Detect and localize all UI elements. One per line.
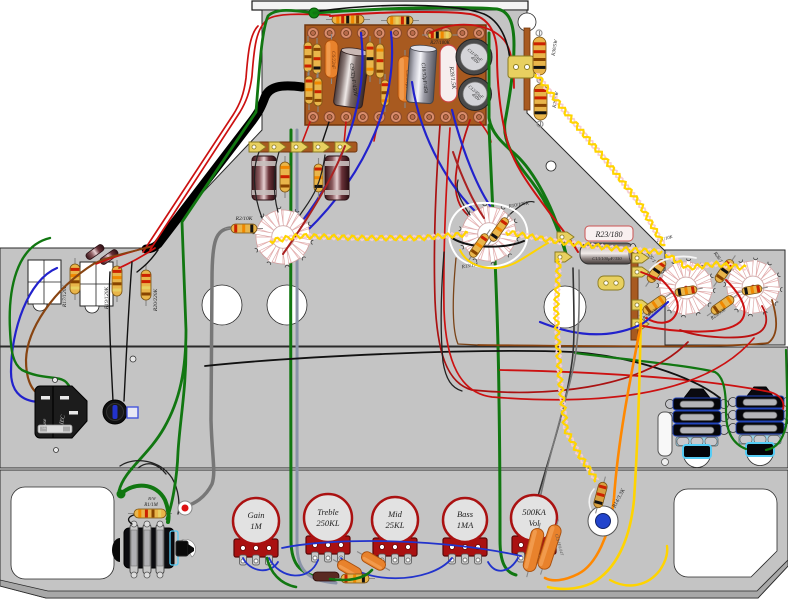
resistor R14/3.3K [591,475,610,514]
resistor R2/10K at V1 [225,224,263,233]
hole front-left [202,285,242,325]
resistor board 4 [314,72,322,112]
capacitor orange tone 2 [354,547,392,576]
wire black jack arc [120,461,179,514]
svg-text:R2/10K: R2/10K [235,216,253,222]
resistor R17/120K [70,258,80,300]
strip lug b [632,267,649,277]
capacitor C12 can [459,78,492,111]
diode maroon 2 [99,248,119,265]
wire fan black [137,250,158,272]
transformer T1 [684,441,711,468]
wire blue pot bus 4 [282,541,521,556]
twisted heater edge diagonal [536,74,664,247]
resistor R10/100K on V2 [485,211,514,248]
node green junction [309,8,319,18]
grid wire gray cable [186,228,230,506]
wire white V2 cloud [449,203,528,267]
wire red V4 right [680,306,766,337]
wire yellow bottom loop [610,546,667,585]
wire brown left loop [26,263,95,397]
svg-text:Treble: Treble [317,507,339,517]
screw hole [130,356,136,362]
wire blue board-V1 b [306,32,392,232]
wire black band B [205,351,720,398]
wire black over board [320,5,510,60]
resistor dark at pots [313,572,339,581]
hole front-right [544,286,586,328]
wire green mains along cable [119,10,314,491]
small board strip [250,142,357,152]
wire white power loop [650,257,696,271]
wire blue board-V1 a [300,33,362,224]
svg-text:Mid: Mid [387,509,402,519]
chassis bottom folded strip [0,560,788,598]
resistor R1/1M at jack [128,509,172,518]
wire brown fan [95,247,150,263]
resistor board 7 [381,74,389,112]
wire blue vol [488,558,518,571]
hole bottom-right cutout [674,489,777,577]
wire red mains 2 [143,26,258,252]
chassis top folded edge [252,1,528,10]
wire red V3 strip [641,272,660,280]
wire black C13 down [533,268,574,515]
wire brown V2 down [453,258,478,345]
resistor R29/5W [534,78,547,126]
capacitor C9/32uF/450V [333,46,370,108]
board turrets top row [308,28,319,39]
wire black switch 2 [124,262,132,401]
capacitor C2 maroon [325,156,349,200]
label R23/180 [585,226,633,241]
wire red board exit 4 [480,122,491,142]
wire black V2 down [441,252,462,391]
LED indicator [178,501,192,515]
wire red top run [330,12,578,252]
wire blue pot bus 1 [243,558,278,570]
resistor R13/1M on V2 [465,227,494,264]
twisted heater V2 to panel [506,230,662,254]
pilot light [588,506,618,536]
wire blue board-V2 a [412,82,478,214]
terminal strip right edge [524,28,530,110]
terminal strip right panel [631,252,638,340]
strip lug d [632,319,649,329]
fuse holder near T1 [658,412,672,456]
svg-text:C6/22nF: C6/22nF [330,51,335,70]
wire yellow V2 loop [460,240,554,268]
lug near C13 b [555,252,572,262]
wire yellow to pilot [602,505,603,520]
potentiometer Treble 250KL [306,536,350,554]
tube socket V2 [459,204,520,265]
wire red over transformers [500,370,783,409]
capacitor C6/22nF [325,34,338,84]
twisted heater down middle [554,259,599,480]
terminal strip TS1 [28,260,61,304]
wire red board exit 3 [374,122,378,141]
wire red arc over board [430,25,514,88]
wire fan red 1 [96,246,152,264]
resistor board 1 [304,36,312,78]
wire gray mid down [297,130,336,583]
diode maroon 1 [85,243,105,260]
resistor board 3 [305,70,313,110]
resistor R27/100K on board [422,31,458,39]
tube socket V4 [724,258,783,317]
wire red V3 loop [646,278,678,323]
resistor board 5 [366,36,374,82]
wire red mains 1 [150,14,330,250]
wire blue board-V2 b [452,110,493,210]
strip lug a [632,253,649,263]
hole front-left2 [267,285,307,325]
chassis top face and left band [0,10,666,346]
svg-text:25KL: 25KL [386,520,405,530]
resistor right of C2 [314,158,323,198]
strip lugs [249,142,266,152]
resistor screen V3 [669,284,704,298]
potentiometer Vol 500KA [512,536,556,554]
svg-text:R1/1M: R1/1M [143,503,158,508]
capacitor C10/32uF/450V [406,44,437,103]
capacitor orange vol 1 [520,521,546,578]
svg-text:1MA: 1MA [457,520,474,530]
potentiometer Gain 1M [234,539,278,557]
capacitor C13/100uF [580,243,635,264]
resistor R30/5W [533,31,546,81]
wire darkred across V1 [283,146,345,254]
strip lug c [632,300,649,310]
wire green band B to T2 [575,353,746,449]
svg-text:250KL: 250KL [316,518,339,528]
resistor R19/120K [112,260,122,302]
svg-text:Gain: Gain [248,510,265,520]
wire blue left loop [11,268,57,402]
wire fan red 2 [119,248,155,268]
screw hole IEC top [53,378,58,383]
tube socket V1 [253,207,314,268]
potentiometer Mid 25KL [373,538,417,556]
wire green band to jack [167,348,186,519]
wire green gain lug [267,558,296,587]
wire green on board [489,33,566,254]
board turrets bottom row [308,112,319,123]
svg-text:Bass: Bass [457,509,474,519]
wire black V2 pins [457,180,470,215]
wire red board right border [455,120,488,228]
twisted heater V1-V2 [270,232,468,242]
wire orange panel down [545,324,641,580]
transformer T2 [747,439,774,466]
turret board [305,25,486,125]
chassis bottom band [0,470,788,598]
resistor between caps [280,156,290,198]
wire green top run [314,8,566,254]
wire black V1 pin c [300,155,325,215]
wire black jack arc2 [138,464,166,474]
wire blue pot bus 2 [269,558,318,576]
wire red V2 pair down [434,125,688,392]
resistor yellow at pots [335,574,375,583]
svg-text:R23/180: R23/180 [594,230,622,239]
resistor R22/330 [704,290,740,319]
mains cable [146,86,302,249]
wire green jack [121,486,169,522]
capacitor orange tone 1 [330,555,368,584]
capacitor C1 maroon [252,156,276,200]
resistor board 2 [313,38,321,80]
svg-text:B/W: B/W [148,496,157,501]
resistor board 6 [376,38,384,84]
capacitor C8 [398,50,412,108]
resistor screen V4 [736,283,769,296]
wire black R1 lead [129,514,137,524]
twisted heater power tubes [666,253,746,270]
wire blue V3 to strip [540,302,668,334]
wire yellow panel down [548,305,641,589]
wire green right edge to T2 bell [766,350,787,450]
resistor R24/330 [636,290,672,319]
wire black across V2 [452,238,524,247]
svg-text:500KA: 500KA [522,507,546,517]
resistor R20/220K [141,264,151,306]
svg-text:Vol: Vol [529,518,541,528]
wire green pot ground [330,570,372,580]
potentiometer Bass 1MA [443,538,487,556]
screw hole IEC bottom [54,448,59,453]
input jack [112,538,120,562]
chassis right panel [665,250,785,345]
tube socket V3 [657,259,716,318]
lug plate right edge [508,56,534,78]
chassis middle band [0,347,788,468]
screw hole [132,527,138,533]
lug near C13 a [557,232,574,242]
svg-text:1M: 1M [250,521,262,531]
resistor R25/1 [642,253,671,289]
wire red V4 loop [643,280,744,332]
lug plate right panel [598,276,624,290]
wire black V1 pin b [274,152,279,212]
wire blue pot bus 3 [341,558,452,578]
IEC power inlet [35,386,87,438]
svg-text:R20/220K: R20/220K [153,289,159,313]
wire green earth loop [10,238,77,413]
capacitor C11 can [456,39,492,75]
wire red into V2 [453,152,484,218]
power switch [103,400,127,424]
hole behind board [518,13,536,31]
hole small right edge [546,161,556,171]
resistor R28/1.5K [440,45,457,102]
wire red board exit [302,122,310,143]
resistor R26/1 [710,253,739,289]
wire black board exit [322,122,329,143]
resistor above board 2 [381,16,419,25]
wire black switch 1 [109,272,113,401]
wire gray C13 down [537,270,579,515]
wire brown V4 down [478,300,776,346]
svg-text:Fuse: Fuse [42,418,48,430]
wire white pilot arc [589,489,595,515]
wire black V1 pin a [254,152,262,218]
wire green mid down [291,130,330,579]
wire green board to vol pot [489,125,516,575]
svg-text:C13/100µF/350: C13/100µF/350 [592,256,622,261]
capacitor orange vol 2 [534,517,564,576]
terminal strip TS2 [80,262,113,306]
resistor above board 1 [326,15,370,24]
hole bottom-left cutout [11,487,114,579]
